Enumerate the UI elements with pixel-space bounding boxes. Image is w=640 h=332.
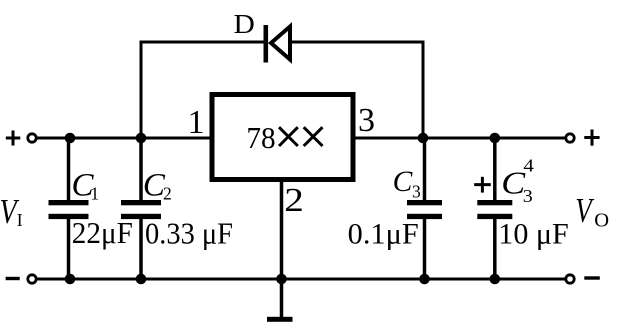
svg-text:D: D bbox=[234, 9, 255, 39]
svg-text:1: 1 bbox=[90, 184, 99, 204]
svg-text:2: 2 bbox=[284, 180, 304, 218]
svg-text:C: C bbox=[393, 166, 413, 198]
svg-text:3: 3 bbox=[523, 186, 533, 206]
svg-text:1: 1 bbox=[188, 104, 205, 141]
svg-text:0.33 μF: 0.33 μF bbox=[145, 216, 233, 251]
svg-text:0.1μF: 0.1μF bbox=[348, 219, 419, 251]
svg-text:3: 3 bbox=[358, 102, 375, 139]
svg-text:I: I bbox=[17, 210, 23, 230]
svg-text:4: 4 bbox=[523, 156, 534, 176]
svg-text:78: 78 bbox=[246, 120, 275, 155]
svg-text:3: 3 bbox=[412, 182, 421, 202]
svg-text:10 μF: 10 μF bbox=[498, 219, 569, 251]
svg-text:2: 2 bbox=[163, 184, 172, 204]
svg-text:22μF: 22μF bbox=[72, 215, 133, 250]
svg-text:O: O bbox=[594, 210, 609, 232]
